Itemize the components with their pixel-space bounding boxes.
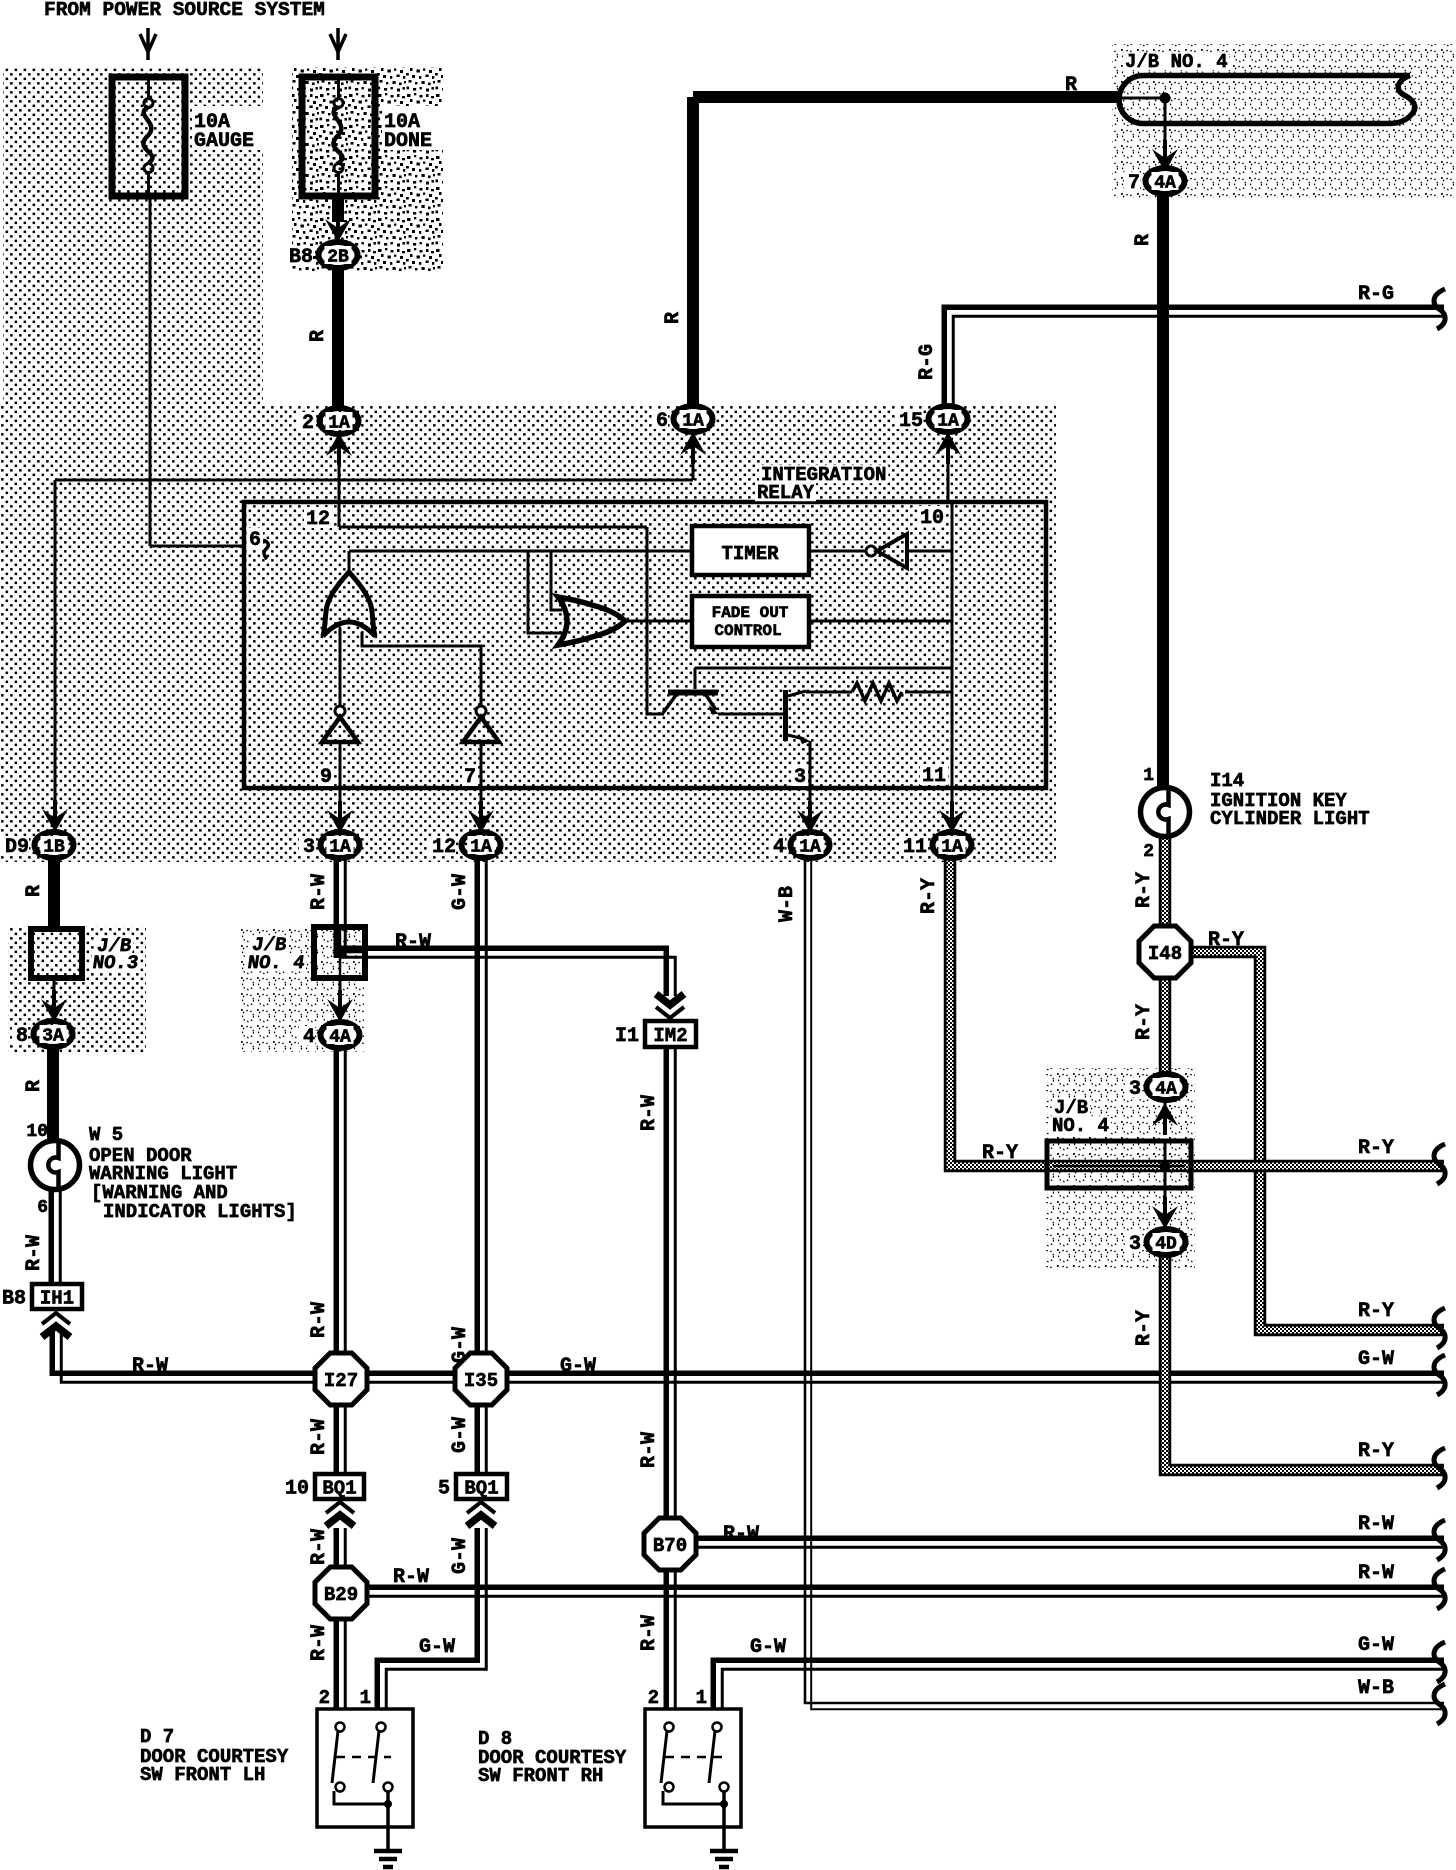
svg-text:1A: 1A — [799, 838, 821, 858]
svg-text:NO. 4: NO. 4 — [246, 952, 306, 974]
svg-text:I27: I27 — [324, 1370, 358, 1392]
svg-text:1A: 1A — [329, 838, 351, 858]
svg-text:3: 3 — [794, 766, 806, 789]
svg-text:15: 15 — [899, 410, 923, 433]
svg-text:R-Y: R-Y — [1358, 1137, 1394, 1160]
svg-text:W-B: W-B — [776, 886, 799, 922]
svg-text:1: 1 — [696, 1687, 707, 1709]
svg-text:R-W: R-W — [1358, 1513, 1394, 1536]
svg-text:D9: D9 — [5, 836, 29, 859]
svg-text:2: 2 — [302, 412, 314, 435]
svg-text:3: 3 — [1129, 1078, 1141, 1101]
svg-text:B70: B70 — [653, 1535, 687, 1557]
svg-text:NO.3: NO.3 — [91, 952, 140, 974]
svg-text:G-W: G-W — [1358, 1348, 1394, 1371]
svg-text:5: 5 — [438, 1478, 450, 1501]
svg-text:R: R — [23, 1080, 46, 1092]
svg-text:R-Y: R-Y — [982, 1142, 1018, 1165]
svg-text:BQ1: BQ1 — [322, 1478, 356, 1500]
svg-text:FADE OUT: FADE OUT — [712, 604, 789, 622]
svg-text:2B: 2B — [327, 248, 349, 268]
svg-text:R-W: R-W — [132, 1355, 168, 1378]
svg-text:G-W: G-W — [560, 1355, 596, 1378]
svg-text:G-W: G-W — [449, 1417, 472, 1453]
svg-text:R-Y: R-Y — [1133, 1004, 1156, 1040]
svg-text:IM2: IM2 — [653, 1025, 687, 1047]
svg-text:10: 10 — [285, 1478, 309, 1501]
svg-text:R-G: R-G — [1358, 283, 1394, 306]
svg-text:R-W: R-W — [638, 1615, 661, 1651]
svg-text:I35: I35 — [464, 1370, 498, 1392]
svg-text:BQ1: BQ1 — [464, 1478, 498, 1500]
svg-text:R-W: R-W — [308, 1625, 331, 1661]
svg-text:4: 4 — [773, 836, 785, 859]
svg-text:1: 1 — [360, 1687, 371, 1709]
svg-text:I1: I1 — [615, 1025, 639, 1048]
svg-text:W 5: W 5 — [89, 1124, 123, 1146]
svg-text:R-W: R-W — [638, 1095, 661, 1131]
svg-text:R-Y: R-Y — [1358, 1300, 1394, 1323]
svg-text:7: 7 — [464, 766, 476, 789]
svg-text:R-G: R-G — [916, 344, 939, 380]
svg-text:NO. 4: NO. 4 — [1052, 1115, 1109, 1137]
svg-text:R-W: R-W — [308, 1302, 331, 1338]
svg-text:1A: 1A — [328, 414, 350, 434]
svg-text:DONE: DONE — [384, 130, 432, 153]
svg-text:IH1: IH1 — [40, 1288, 74, 1310]
svg-text:R: R — [1065, 74, 1077, 97]
svg-text:R-Y: R-Y — [918, 878, 941, 914]
svg-text:12: 12 — [432, 836, 456, 859]
svg-text:2: 2 — [648, 1687, 659, 1709]
svg-text:7: 7 — [1128, 172, 1140, 195]
svg-text:1A: 1A — [941, 838, 963, 858]
svg-text:1A: 1A — [470, 838, 492, 858]
svg-text:INDICATOR LIGHTS]: INDICATOR LIGHTS] — [103, 1201, 297, 1223]
svg-text:1: 1 — [1143, 766, 1154, 786]
svg-text:FROM POWER SOURCE SYSTEM: FROM POWER SOURCE SYSTEM — [44, 0, 325, 21]
svg-text:4D: 4D — [1155, 1235, 1177, 1255]
svg-text:R-Y: R-Y — [1358, 1440, 1394, 1463]
svg-text:G-W: G-W — [449, 1538, 472, 1574]
svg-text:3: 3 — [1129, 1233, 1141, 1256]
svg-text:R-W: R-W — [723, 1523, 759, 1546]
svg-text:I48: I48 — [1148, 943, 1182, 965]
svg-text:6: 6 — [249, 529, 261, 552]
svg-text:11: 11 — [922, 765, 946, 788]
svg-text:R: R — [307, 330, 330, 342]
svg-text:R-W: R-W — [308, 1419, 331, 1455]
svg-text:8: 8 — [16, 1025, 28, 1048]
svg-text:R-Y: R-Y — [1133, 1310, 1156, 1346]
svg-text:R-W: R-W — [393, 1566, 429, 1589]
svg-text:R-W: R-W — [395, 931, 431, 954]
svg-text:4A: 4A — [329, 1028, 351, 1048]
svg-text:R-W: R-W — [1358, 1562, 1394, 1585]
svg-text:9: 9 — [320, 766, 332, 789]
svg-text:SW FRONT RH: SW FRONT RH — [478, 1765, 603, 1787]
svg-text:R-W: R-W — [308, 1529, 331, 1565]
svg-text:12: 12 — [306, 508, 330, 531]
svg-text:CONTROL: CONTROL — [714, 622, 781, 640]
svg-text:D 7: D 7 — [140, 1726, 174, 1748]
svg-text:TIMER: TIMER — [721, 543, 779, 565]
svg-text:R-Y: R-Y — [1208, 929, 1244, 952]
svg-text:B8: B8 — [289, 246, 313, 269]
svg-text:J/B NO. 4: J/B NO. 4 — [1125, 51, 1228, 73]
svg-text:1A: 1A — [937, 412, 959, 432]
svg-text:2: 2 — [319, 1687, 330, 1709]
svg-text:SW FRONT LH: SW FRONT LH — [140, 1764, 265, 1786]
svg-text:G-W: G-W — [1358, 1634, 1394, 1657]
svg-text:11: 11 — [903, 836, 927, 859]
svg-text:I14: I14 — [1210, 770, 1244, 792]
svg-text:G-W: G-W — [449, 1327, 472, 1363]
svg-text:R-Y: R-Y — [1133, 872, 1156, 908]
svg-text:1B: 1B — [43, 838, 65, 858]
svg-text:4A: 4A — [1155, 1080, 1177, 1100]
svg-text:W-B: W-B — [1358, 1677, 1394, 1700]
svg-text:G-W: G-W — [449, 874, 472, 910]
svg-text:6: 6 — [656, 410, 668, 433]
svg-text:4: 4 — [303, 1026, 315, 1049]
svg-text:R: R — [1132, 234, 1155, 246]
svg-text:10: 10 — [26, 1122, 48, 1142]
svg-text:2: 2 — [1143, 842, 1154, 862]
svg-text:3: 3 — [303, 836, 315, 859]
svg-text:R-W: R-W — [638, 1432, 661, 1468]
svg-text:RELAY: RELAY — [757, 482, 815, 504]
svg-text:CYLINDER LIGHT: CYLINDER LIGHT — [1210, 808, 1370, 830]
svg-text:10: 10 — [920, 507, 944, 530]
svg-text:G-W: G-W — [419, 1636, 455, 1659]
svg-text:G-W: G-W — [750, 1636, 786, 1659]
svg-text:6: 6 — [37, 1198, 48, 1218]
svg-text:GAUGE: GAUGE — [194, 130, 254, 153]
svg-text:R-W: R-W — [23, 1235, 46, 1271]
svg-text:4A: 4A — [1154, 174, 1176, 194]
svg-text:1A: 1A — [682, 412, 704, 432]
svg-text:B8: B8 — [2, 1288, 26, 1311]
svg-text:R-W: R-W — [308, 874, 331, 910]
svg-text:B29: B29 — [324, 1584, 358, 1606]
svg-text:3A: 3A — [42, 1027, 64, 1047]
svg-text:R: R — [662, 312, 685, 324]
svg-text:R: R — [23, 885, 46, 897]
